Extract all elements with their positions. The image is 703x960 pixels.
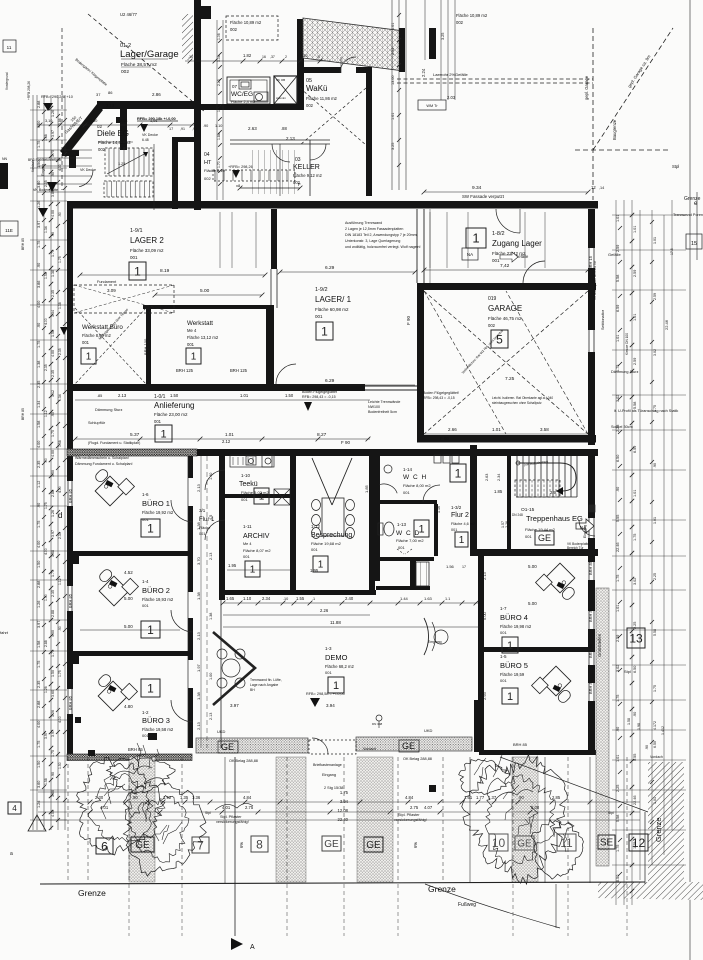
svg-text:BRH 85: BRH 85 — [68, 593, 73, 608]
svg-text:9.34: 9.34 — [472, 185, 482, 191]
svg-text:Stpl: Stpl — [672, 164, 679, 169]
svg-text:1.70: 1.70 — [217, 161, 221, 168]
svg-text:1.35: 1.35 — [180, 795, 189, 800]
svg-text:GARAGE: GARAGE — [488, 304, 522, 313]
svg-text:6.48: 6.48 — [142, 138, 149, 142]
svg-text:.10: .10 — [188, 55, 193, 59]
svg-text:Fläche 46,75 m2: Fläche 46,75 m2 — [488, 316, 522, 321]
svg-text:4.00: 4.00 — [51, 350, 55, 357]
svg-text:1.75: 1.75 — [616, 575, 620, 582]
svg-text:12.08: 12.08 — [338, 808, 349, 813]
svg-text:Fläche 14,82 m2: Fläche 14,82 m2 — [98, 140, 131, 145]
svg-text:5: 5 — [318, 55, 320, 59]
svg-text:2.88: 2.88 — [51, 610, 55, 617]
svg-text:2.13: 2.13 — [118, 393, 127, 398]
svg-text:Leicht. Isolieren. Rat Oberkan: Leicht. Isolieren. Rat Oberkante agl.w.)… — [492, 396, 553, 400]
svg-text:2.13: 2.13 — [482, 571, 487, 580]
svg-text:2.88: 2.88 — [44, 640, 48, 647]
svg-text:gepl. Garage: gepl. Garage — [584, 75, 589, 100]
svg-text:1-4: 1-4 — [142, 579, 149, 584]
svg-text:BRH 85: BRH 85 — [68, 488, 73, 503]
svg-text:1.10: 1.10 — [215, 124, 222, 128]
svg-text:1: 1 — [418, 523, 424, 535]
svg-text:001: 001 — [130, 255, 138, 260]
svg-text:1.40: 1.40 — [209, 473, 213, 480]
svg-text:Fläche 4,6 m2: Fläche 4,6 m2 — [451, 522, 475, 526]
svg-text:BRH 85: BRH 85 — [513, 742, 528, 747]
svg-text:Treppenhaus EG: Treppenhaus EG — [526, 514, 583, 523]
svg-text:1.26: 1.26 — [37, 801, 41, 808]
svg-text:.90: .90 — [58, 212, 62, 217]
svg-text:4.01: 4.01 — [222, 805, 231, 810]
svg-text:4.00: 4.00 — [58, 164, 62, 171]
svg-text:1.01: 1.01 — [653, 517, 657, 524]
svg-text:001: 001 — [325, 670, 332, 675]
svg-text:3.25: 3.25 — [441, 33, 445, 40]
svg-text:.90: .90 — [633, 712, 637, 717]
svg-text:1.75: 1.75 — [37, 241, 41, 248]
svg-text:Fläche 11,86 m2: Fläche 11,86 m2 — [306, 96, 338, 101]
svg-text:4.84: 4.84 — [405, 795, 414, 800]
svg-text:1.38: 1.38 — [209, 613, 213, 620]
svg-text:Werkstatt Büro: Werkstatt Büro — [82, 324, 123, 331]
svg-text:1.82: 1.82 — [243, 53, 252, 58]
svg-text:RFB= 298,43 = -0,15: RFB= 298,43 = -0,15 — [302, 395, 336, 399]
svg-text:1-10: 1-10 — [241, 473, 251, 478]
svg-text:Eingang: Eingang — [583, 525, 587, 538]
svg-text:3.60: 3.60 — [51, 690, 55, 697]
svg-text:22.46: 22.46 — [664, 319, 669, 330]
svg-text:2.25: 2.25 — [633, 622, 637, 629]
svg-text:3.60: 3.60 — [37, 781, 41, 788]
svg-text:07: 07 — [232, 84, 238, 89]
svg-text:1.412: 1.412 — [661, 726, 665, 735]
svg-text:2.9: 2.9 — [550, 490, 556, 495]
svg-text:1.75: 1.75 — [51, 250, 55, 257]
svg-text:Boden Flügelgeglättet: Boden Flügelgeglättet — [302, 390, 337, 394]
svg-text:4.00: 4.00 — [37, 441, 41, 448]
svg-text:13.00: 13.00 — [391, 75, 395, 85]
svg-text:019: 019 — [488, 296, 497, 302]
svg-text:a: a — [10, 851, 13, 857]
svg-text:3.86: 3.86 — [51, 790, 55, 797]
svg-text:Lage nach Angabe: Lage nach Angabe — [250, 683, 278, 687]
svg-text:4.00: 4.00 — [44, 548, 48, 555]
svg-text:Fläche 5,02 m2: Fläche 5,02 m2 — [241, 490, 269, 495]
svg-text:7,42: 7,42 — [500, 263, 510, 269]
svg-text:2.27: 2.27 — [175, 169, 179, 176]
svg-text:1.10: 1.10 — [300, 54, 307, 58]
svg-text:GE: GE — [538, 533, 551, 543]
svg-text:7.25: 7.25 — [505, 376, 515, 382]
svg-text:Grenze: Grenze — [78, 888, 106, 898]
svg-text:1,50: 1,50 — [90, 119, 97, 123]
svg-text:1.01: 1.01 — [616, 605, 620, 612]
svg-text:Fläche 19,98 m2: Fläche 19,98 m2 — [500, 624, 532, 629]
svg-text:2.35: 2.35 — [37, 681, 41, 688]
svg-text:Fläche 7,00 m2: Fläche 7,00 m2 — [396, 538, 424, 543]
svg-text:2.59: 2.59 — [633, 270, 637, 277]
svg-text:LAGER/ 1: LAGER/ 1 — [315, 295, 352, 304]
svg-text:Boden Flügelgeglättet!: Boden Flügelgeglättet! — [423, 391, 459, 395]
svg-text:GE: GE — [324, 839, 339, 850]
svg-text:Stpl: Stpl — [624, 669, 631, 674]
svg-text:4.5: 4.5 — [209, 515, 213, 520]
svg-text:2.13: 2.13 — [286, 136, 295, 141]
svg-text:2.13: 2.13 — [106, 103, 115, 108]
svg-text:LAGER 2: LAGER 2 — [130, 236, 164, 245]
svg-text:002: 002 — [98, 147, 106, 152]
svg-text:.90: .90 — [37, 263, 41, 268]
svg-text:BRH 85: BRH 85 — [68, 695, 73, 710]
svg-text:1.75: 1.75 — [633, 534, 637, 541]
svg-text:3.02: 3.02 — [616, 395, 620, 402]
svg-text:15: 15 — [691, 241, 697, 247]
svg-text:Bodenfreiheit 5cm: Bodenfreiheit 5cm — [368, 410, 397, 414]
svg-text:WC/EG: WC/EG — [231, 91, 253, 98]
svg-text:BRH 15: BRH 15 — [588, 255, 593, 270]
svg-text:1.01: 1.01 — [653, 237, 657, 244]
svg-text:,91: ,91 — [180, 127, 185, 131]
svg-text:1.01: 1.01 — [633, 314, 637, 321]
svg-text:1.50: 1.50 — [51, 670, 55, 677]
svg-text:1.01: 1.01 — [225, 432, 234, 437]
svg-text:fahrt: fahrt — [0, 630, 9, 635]
svg-text:2.24: 2.24 — [421, 68, 426, 77]
svg-text:1: 1 — [259, 492, 265, 503]
svg-text:001: 001 — [398, 545, 405, 550]
svg-text:VK Decke: VK Decke — [142, 133, 158, 137]
svg-text:2.35: 2.35 — [51, 590, 55, 597]
svg-text:2.35: 2.35 — [37, 461, 41, 468]
svg-text:Vordach: Vordach — [363, 747, 376, 751]
svg-text:2.40: 2.40 — [345, 596, 354, 601]
svg-text:4.00: 4.00 — [51, 810, 55, 817]
svg-text:1.65: 1.65 — [226, 596, 235, 601]
svg-text:1-6: 1-6 — [142, 492, 149, 497]
svg-text:.90: .90 — [37, 503, 41, 508]
svg-text:NN: NN — [2, 157, 8, 161]
svg-text:002: 002 — [230, 27, 238, 32]
svg-text:DEMO: DEMO — [325, 653, 348, 662]
svg-text:1: 1 — [86, 352, 92, 363]
svg-text:2.52: 2.52 — [391, 48, 395, 55]
svg-text:.90: .90 — [44, 458, 48, 463]
svg-text:2.35: 2.35 — [58, 348, 62, 355]
svg-text:1.26: 1.26 — [51, 510, 55, 517]
svg-text:Fläche 19,59: Fläche 19,59 — [500, 672, 525, 677]
svg-text:Teekü: Teekü — [239, 481, 258, 488]
svg-text:2 Stg 15/38: 2 Stg 15/38 — [324, 786, 343, 790]
svg-text:GE: GE — [517, 839, 532, 850]
svg-text:1-14: 1-14 — [403, 467, 413, 472]
svg-text:002: 002 — [488, 323, 496, 328]
svg-text:Fläche 23,00 m2: Fläche 23,00 m2 — [154, 412, 188, 417]
svg-text:Grenze: Grenze — [684, 196, 701, 202]
svg-text:1: 1 — [459, 535, 465, 546]
svg-text:2.03: 2.03 — [447, 95, 456, 100]
svg-text:2.66: 2.66 — [448, 427, 457, 432]
svg-text:GE: GE — [366, 840, 381, 851]
svg-text:5.37: 5.37 — [130, 432, 140, 438]
svg-text:1.58: 1.58 — [37, 421, 41, 428]
svg-text:1.57: 1.57 — [501, 521, 505, 528]
svg-text:1.01: 1.01 — [492, 427, 501, 432]
svg-text:2.86: 2.86 — [152, 92, 161, 97]
svg-text:3.02: 3.02 — [616, 665, 620, 672]
svg-text:1: 1 — [134, 264, 141, 278]
svg-text:2.34: 2.34 — [497, 474, 501, 481]
svg-text:1.75: 1.75 — [58, 670, 62, 677]
svg-text:1.75: 1.75 — [58, 256, 62, 263]
svg-text:5.00: 5.00 — [124, 596, 133, 601]
svg-text:11.88: 11.88 — [330, 620, 341, 625]
svg-text:1.75: 1.75 — [37, 661, 41, 668]
svg-text:.90: .90 — [51, 172, 55, 177]
svg-text:3.70: 3.70 — [196, 556, 201, 565]
svg-text:6%: 6% — [239, 842, 244, 848]
svg-text:1.06: 1.06 — [217, 33, 221, 40]
svg-text:4.00: 4.00 — [37, 121, 41, 128]
svg-text:.90: .90 — [51, 772, 55, 777]
svg-text:1.00: 1.00 — [209, 673, 213, 680]
svg-text:Fläche 8,07 m2: Fläche 8,07 m2 — [243, 548, 271, 553]
svg-text:001: 001 — [142, 603, 149, 608]
svg-text:BRH 125: BRH 125 — [176, 368, 194, 373]
svg-text:2.35: 2.35 — [44, 180, 48, 187]
svg-text:6.50: 6.50 — [616, 455, 620, 462]
svg-text:4.00: 4.00 — [51, 450, 55, 457]
svg-text:3.60: 3.60 — [37, 181, 41, 188]
svg-text:Fläche 60,98 m2: Fläche 60,98 m2 — [315, 307, 349, 312]
svg-text:2.35: 2.35 — [51, 370, 55, 377]
svg-text:BRH 85: BRH 85 — [588, 643, 593, 658]
svg-text:1-9/2: 1-9/2 — [315, 287, 328, 293]
svg-text:1.75: 1.75 — [633, 842, 637, 849]
svg-text:1.75: 1.75 — [44, 502, 48, 509]
svg-text:2.25: 2.25 — [653, 573, 657, 580]
svg-text:001: 001 — [451, 528, 457, 532]
svg-text:BÜRO 3: BÜRO 3 — [142, 716, 170, 725]
svg-text:1.75: 1.75 — [653, 405, 657, 412]
svg-text:DN 348: DN 348 — [372, 722, 383, 726]
svg-text:11E: 11E — [5, 228, 13, 233]
svg-text:1.56: 1.56 — [446, 564, 455, 569]
svg-text:4.00: 4.00 — [51, 630, 55, 637]
svg-text:1.12: 1.12 — [51, 390, 55, 397]
svg-text:.90: .90 — [203, 124, 208, 128]
svg-text:+RFB 298,26: +RFB 298,26 — [27, 81, 31, 100]
svg-text:1-8/2: 1-8/2 — [492, 231, 505, 237]
svg-text:Asonim: Asonim — [276, 96, 287, 100]
svg-text:2 Lagen je 12,5mm Fassadenplat: 2 Lagen je 12,5mm Fassadenplatten — [345, 227, 403, 231]
svg-text:1: 1 — [191, 352, 197, 363]
svg-text:1.34: 1.34 — [51, 310, 55, 317]
svg-text:1: 1 — [160, 428, 166, 440]
svg-text:1.25: 1.25 — [118, 162, 125, 166]
svg-text:2.13: 2.13 — [209, 553, 213, 560]
svg-text:2.59: 2.59 — [633, 358, 637, 365]
svg-text:2.35: 2.35 — [37, 381, 41, 388]
svg-text:2.13: 2.13 — [196, 721, 201, 730]
svg-text:2.88: 2.88 — [37, 581, 41, 588]
svg-text:1: 1 — [321, 324, 328, 338]
svg-text:001: 001 — [154, 419, 162, 424]
svg-text:2.88: 2.88 — [37, 701, 41, 708]
svg-text:1.55: 1.55 — [296, 596, 305, 601]
svg-text:WaKü: WaKü — [306, 84, 328, 93]
svg-text:1.38: 1.38 — [58, 302, 62, 309]
svg-text:Empfang: Empfang — [428, 640, 442, 644]
svg-text:1.01: 1.01 — [616, 215, 620, 222]
svg-text:,14: ,14 — [599, 186, 604, 190]
svg-text:OK Belag 288,88: OK Belag 288,88 — [229, 759, 258, 763]
svg-text:1.58: 1.58 — [37, 641, 41, 648]
svg-text:versickerungsfähig!: versickerungsfähig! — [216, 820, 249, 824]
svg-text:17: 17 — [462, 565, 466, 569]
svg-text:BRH 100: BRH 100 — [143, 338, 148, 355]
svg-text:1.63: 1.63 — [424, 596, 433, 601]
svg-text:8: 8 — [256, 837, 263, 851]
svg-text:F 90: F 90 — [341, 440, 351, 445]
svg-text:.90: .90 — [51, 232, 55, 237]
svg-text:5.00: 5.00 — [528, 601, 537, 606]
svg-text:002: 002 — [456, 20, 464, 25]
svg-text:4.07: 4.07 — [424, 805, 433, 810]
svg-text:3.94: 3.94 — [326, 703, 335, 708]
svg-text:2.88: 2.88 — [51, 490, 55, 497]
svg-text:4: 4 — [12, 804, 17, 813]
svg-text:12: 12 — [591, 185, 596, 190]
svg-text:86: 86 — [108, 90, 113, 95]
svg-text:3.25: 3.25 — [391, 143, 395, 150]
svg-text:3.97: 3.97 — [37, 621, 41, 628]
svg-text:OK Belag 288,88: OK Belag 288,88 — [403, 757, 432, 761]
svg-text:Diele EG: Diele EG — [97, 129, 129, 138]
svg-text:1.34: 1.34 — [58, 394, 62, 401]
svg-text:BRH 125: BRH 125 — [230, 368, 248, 373]
svg-text:1.38: 1.38 — [196, 591, 201, 600]
svg-text:1.75: 1.75 — [51, 570, 55, 577]
svg-text:Kieswe DN 100: Kieswe DN 100 — [625, 333, 629, 355]
svg-text:1-11: 1-11 — [243, 524, 252, 529]
svg-text:1-7: 1-7 — [500, 606, 507, 611]
svg-text:2.93: 2.93 — [482, 691, 487, 700]
svg-text:Fußweg: Fußweg — [458, 902, 476, 908]
svg-text:001: 001 — [315, 314, 323, 319]
svg-text:2.25: 2.25 — [616, 785, 620, 792]
svg-text:1.01: 1.01 — [217, 105, 221, 112]
svg-text:Anlieferung: Anlieferung — [154, 401, 194, 410]
svg-text:Stpl. Pflaster: Stpl. Pflaster — [220, 815, 242, 819]
svg-text:UKD: UKD — [217, 729, 226, 734]
svg-text:8.19: 8.19 — [160, 268, 170, 274]
svg-text:6.50: 6.50 — [616, 875, 620, 882]
svg-text:2.13: 2.13 — [209, 713, 213, 720]
svg-text:1.50: 1.50 — [37, 761, 41, 768]
svg-text:2.34: 2.34 — [262, 596, 271, 601]
svg-text:4.84: 4.84 — [243, 795, 252, 800]
svg-text:W C H: W C H — [403, 474, 427, 481]
svg-text:Grenze: Grenze — [654, 817, 663, 842]
svg-text:17: 17 — [169, 127, 173, 131]
svg-text:GE: GE — [135, 840, 150, 851]
svg-text:W C D: W C D — [396, 530, 420, 537]
svg-text:04: 04 — [204, 152, 210, 158]
svg-text:Fläche 19,92 m2: Fläche 19,92 m2 — [142, 510, 174, 515]
svg-text:001: 001 — [403, 490, 410, 495]
svg-text:1.38: 1.38 — [51, 270, 55, 277]
svg-text:BÜRO 2: BÜRO 2 — [142, 586, 170, 595]
svg-text:5.00: 5.00 — [482, 611, 487, 620]
svg-text:.1: .1 — [312, 597, 315, 601]
svg-text:1: 1 — [318, 560, 324, 571]
svg-text:VK OB: VK OB — [276, 78, 285, 82]
svg-text:F 90: F 90 — [440, 436, 450, 441]
svg-text:3/1: 3/1 — [199, 508, 206, 513]
svg-text:1.75: 1.75 — [51, 150, 55, 157]
svg-text:BRH 85: BRH 85 — [128, 747, 143, 752]
svg-text:1.58: 1.58 — [44, 272, 48, 279]
svg-text:.90: .90 — [518, 795, 524, 800]
svg-text:4.00: 4.00 — [44, 318, 48, 325]
svg-text:1.26: 1.26 — [51, 710, 55, 717]
svg-text:1.50: 1.50 — [58, 762, 62, 769]
svg-text:1.34: 1.34 — [37, 401, 41, 408]
svg-text:1-0/1: 1-0/1 — [154, 394, 166, 400]
svg-text:SW Fassade verputzt: SW Fassade verputzt — [462, 194, 505, 199]
svg-text:4.00: 4.00 — [37, 541, 41, 548]
svg-text:DIN 18183 Teil 2, Anwendungsty: DIN 18183 Teil 2, Anwendungstyp 7 je 20m… — [345, 233, 418, 237]
svg-text:Unterkonstr. 3, Lage Querlager: Unterkonstr. 3, Lage Querlagerung — [345, 239, 400, 243]
svg-text:1-9/1: 1-9/1 — [130, 228, 143, 234]
svg-text:001: 001 — [199, 532, 205, 536]
svg-text:5.58: 5.58 — [633, 402, 637, 409]
svg-text:4.80: 4.80 — [124, 704, 133, 709]
svg-text:5.00: 5.00 — [531, 805, 540, 810]
svg-text:RFB= 298,58 = +/-0,00: RFB= 298,58 = +/-0,00 — [306, 692, 345, 696]
svg-text:1.01: 1.01 — [616, 335, 620, 342]
svg-text:Trennwand fin. Lüfte,: Trennwand fin. Lüfte, — [250, 678, 282, 682]
svg-text:A: A — [250, 944, 255, 951]
svg-text:6.29: 6.29 — [325, 265, 335, 271]
svg-text:1: 1 — [507, 640, 513, 652]
svg-text:1.01: 1.01 — [633, 490, 637, 497]
svg-text:d: d — [58, 511, 62, 520]
svg-text:5.00: 5.00 — [528, 564, 537, 569]
svg-text:22.40: 22.40 — [338, 817, 349, 822]
svg-text:2.35: 2.35 — [44, 364, 48, 371]
svg-text:11: 11 — [7, 45, 12, 50]
svg-text:1.34: 1.34 — [44, 226, 48, 233]
svg-text:3,10: 3,10 — [45, 119, 52, 123]
svg-text:5.00: 5.00 — [124, 624, 133, 629]
svg-text:001: 001 — [243, 554, 250, 559]
svg-text:BÜRO 1: BÜRO 1 — [142, 499, 170, 508]
svg-text:1.50: 1.50 — [170, 393, 179, 398]
svg-text:1.01: 1.01 — [616, 755, 620, 762]
svg-text:Grenze: Grenze — [428, 884, 456, 894]
svg-text:4.172: 4.172 — [653, 721, 657, 730]
svg-text:VK Bodenplatte Bereich Tor: VK Bodenplatte Bereich Tor — [593, 260, 597, 300]
svg-text:4.00: 4.00 — [58, 716, 62, 723]
svg-text:3.97: 3.97 — [51, 730, 55, 737]
svg-text:1.75: 1.75 — [37, 341, 41, 348]
svg-text:.90: .90 — [132, 795, 138, 800]
svg-text:+RFB= 298,26: +RFB= 298,26 — [228, 165, 253, 169]
svg-text:1.95: 1.95 — [228, 563, 237, 568]
svg-text:1.58: 1.58 — [58, 440, 62, 447]
